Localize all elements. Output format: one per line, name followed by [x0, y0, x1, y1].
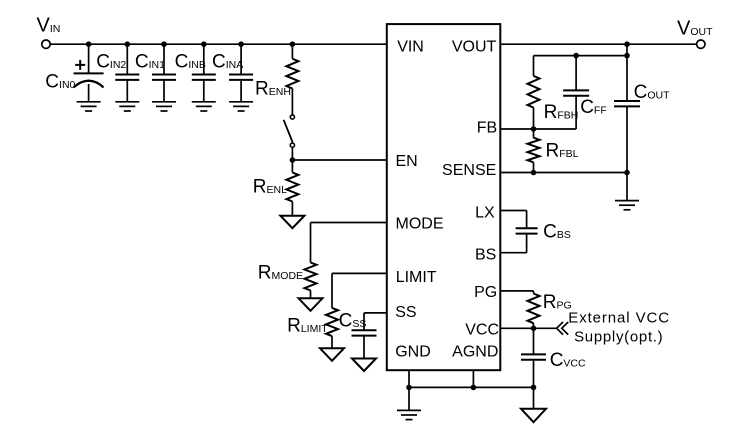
svg-text:VIN: VIN [397, 38, 424, 55]
svg-text:GND: GND [395, 344, 431, 361]
svg-text:LX: LX [475, 204, 495, 221]
svg-text:External VCC: External VCC [568, 310, 670, 327]
svg-text:FB: FB [477, 119, 497, 136]
svg-text:VOUT: VOUT [452, 38, 497, 55]
svg-text:MODE: MODE [396, 215, 444, 232]
svg-text:AGND: AGND [452, 344, 498, 361]
svg-text:Supply(opt.): Supply(opt.) [574, 329, 663, 346]
svg-text:BS: BS [475, 247, 496, 264]
svg-text:PG: PG [474, 284, 497, 301]
svg-text:VCC: VCC [465, 322, 499, 339]
svg-text:LIMIT: LIMIT [396, 269, 437, 286]
svg-text:SS: SS [395, 304, 416, 321]
svg-text:EN: EN [396, 153, 418, 170]
svg-text:SENSE: SENSE [442, 162, 496, 179]
